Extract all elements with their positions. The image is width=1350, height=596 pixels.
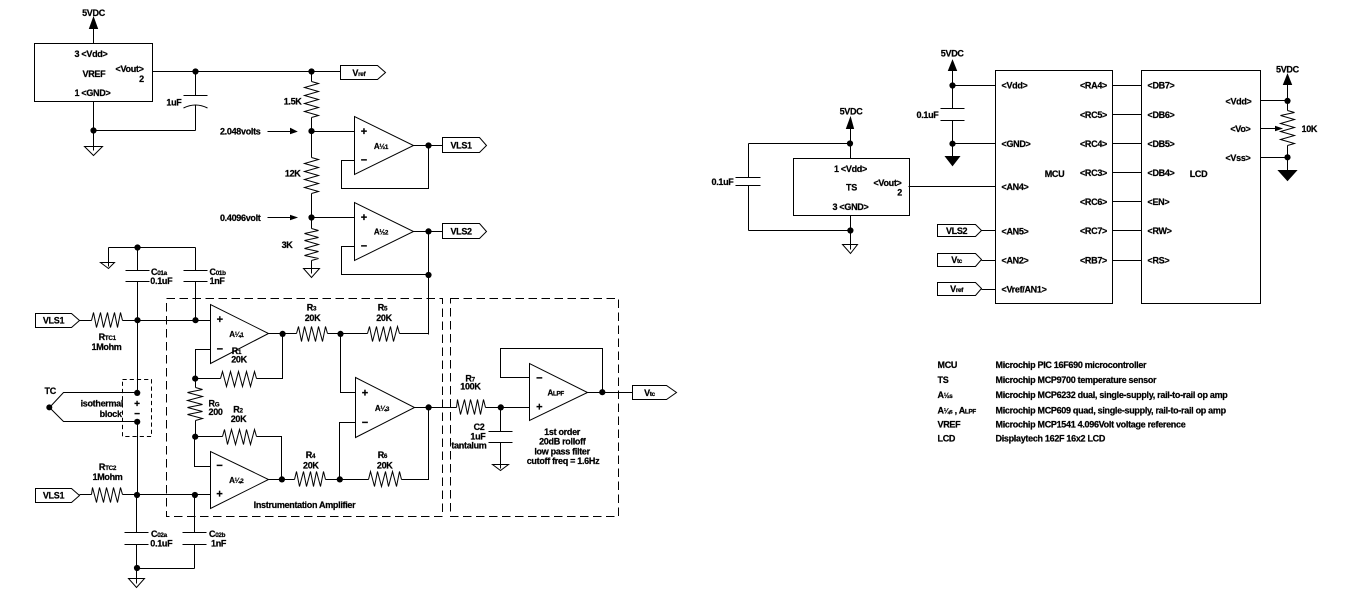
svg-text:−: − <box>361 241 367 253</box>
wire A1/4-2 output <box>269 479 295 481</box>
wire MCU RC6 to LCD EN <box>1113 201 1142 203</box>
wire 5VDC to pot top <box>1287 85 1289 111</box>
wire C01 ground bus <box>109 247 196 249</box>
svg-text:VLS1: VLS1 <box>43 316 65 326</box>
svg-text:Microchip PIC 16F690 microcont: Microchip PIC 16F690 microcontroller <box>996 360 1148 370</box>
svg-text:+: + <box>217 314 223 326</box>
svg-text:+: + <box>361 212 367 224</box>
node junction R1/RG <box>192 376 198 382</box>
svg-text:2: 2 <box>139 74 144 84</box>
thermocouple TC terminal <box>45 386 57 410</box>
wire Vtc to MCU AN2 <box>982 260 996 262</box>
svg-text:1Mohm: 1Mohm <box>91 342 121 352</box>
node junction R4/R6/-input <box>337 476 343 482</box>
svg-text:VREF: VREF <box>938 420 962 430</box>
op-amp A1/4-3 (MCP609 quarter) <box>356 378 415 438</box>
node junction Rtc1/C01a <box>134 317 140 323</box>
potentiometer 10K <box>1281 111 1318 158</box>
wire A1/4-3 + input stub <box>341 334 356 393</box>
svg-text:<AN5>: <AN5> <box>1002 226 1029 236</box>
svg-text:block: block <box>100 409 123 419</box>
capacitor C 0.1uF (TS bypass) <box>711 144 760 231</box>
wire TS Vout to MCU AN4 <box>909 186 996 188</box>
svg-text:<Vdd>: <Vdd> <box>1225 97 1251 107</box>
resistor 3K <box>282 218 319 269</box>
capacitor C1 1uF (VREF bypass) <box>166 72 207 131</box>
svg-text:<Vdd>: <Vdd> <box>1002 81 1028 91</box>
svg-text:2: 2 <box>897 188 902 198</box>
svg-text:<RC3>: <RC3> <box>1080 168 1107 178</box>
svg-text:20K: 20K <box>303 461 319 471</box>
capacitor C2 1uF tantalum <box>451 408 512 465</box>
svg-text:1 <Vdd>: 1 <Vdd> <box>834 164 867 174</box>
wire VLS2 node down to R5 <box>428 275 430 335</box>
wire A1/4-3 - input stub <box>340 423 356 480</box>
wire TC positive lead <box>50 393 138 408</box>
svg-text:A½1: A½1 <box>374 142 389 151</box>
op-amp A1/2-2 (MCP6232 half) <box>355 203 414 261</box>
resistor 12K <box>285 132 319 218</box>
low pass filter boundary (dashed box) <box>451 299 619 517</box>
svg-text:VREF: VREF <box>83 69 107 79</box>
instrumentation amplifier boundary (dashed box) <box>167 299 443 517</box>
svg-text:1 <GND>: 1 <GND> <box>75 88 111 98</box>
resistor R3 20K <box>297 303 328 342</box>
svg-text:0.1uF: 0.1uF <box>711 177 734 187</box>
svg-text:A¼1: A¼1 <box>229 330 244 339</box>
wire MCU RC4 to LCD DB5 <box>1113 143 1142 145</box>
svg-text:−: − <box>216 460 222 472</box>
svg-text:<RC5>: <RC5> <box>1080 110 1107 120</box>
ground (TS) <box>850 245 852 250</box>
svg-text:1.5K: 1.5K <box>284 97 303 107</box>
power 5VDC (VREF supply) <box>82 8 106 29</box>
svg-text:Instrumentation Amplifier: Instrumentation Amplifier <box>254 500 356 510</box>
svg-text:−: − <box>362 417 368 429</box>
wire A1/4-2 - input stub <box>195 437 211 467</box>
node junction Vout/C1 <box>192 68 198 74</box>
svg-text:+: + <box>536 401 542 413</box>
svg-text:0.1uF: 0.1uF <box>150 539 173 549</box>
voltage reference U VREF (MCP1541) <box>35 44 153 102</box>
wire Vdd to MCU <box>953 85 996 87</box>
wire TS GND down <box>850 216 852 245</box>
input flag Vtc (to AN2) <box>938 254 982 267</box>
svg-text:+: + <box>362 387 368 399</box>
node junction LCD Vdd <box>1284 98 1290 104</box>
node junction Vout/divider <box>308 68 314 74</box>
svg-text:Microchip MCP1541 4.096Volt vo: Microchip MCP1541 4.096Volt voltage refe… <box>996 420 1186 430</box>
wire R2 to A1/4-2 output <box>257 437 282 480</box>
resistor R6 20K <box>340 450 402 487</box>
svg-text:−: − <box>134 409 140 420</box>
node junction TS Vdd/cap <box>847 140 853 146</box>
svg-text:0.4096volt: 0.4096volt <box>220 213 261 223</box>
svg-text:1nF: 1nF <box>210 276 226 286</box>
wire flag to Rtc2 <box>80 494 92 496</box>
wire A1/4-1 - input stub <box>196 350 211 379</box>
node feedback/R5 junction <box>425 272 431 278</box>
svg-text:1uF: 1uF <box>166 98 182 108</box>
op-amp A1/4-1 (MCP609 quarter) <box>211 305 269 364</box>
svg-text:200: 200 <box>209 407 223 417</box>
svg-text:MCU: MCU <box>938 360 958 370</box>
ground (VREF) <box>85 131 103 156</box>
svg-text:−: − <box>217 343 223 355</box>
resistor R2 20K <box>196 405 257 445</box>
resistor R7 100K <box>457 374 486 415</box>
wire R4 to junction <box>326 479 340 481</box>
input flag VLS1 (to Rtc1) <box>36 314 80 328</box>
ground (divider) <box>311 269 313 274</box>
wire R5 to VLS2 node <box>400 333 429 335</box>
node junction C02 ground <box>134 565 140 571</box>
ground (MCU, solid) <box>946 144 960 166</box>
legend component table <box>938 360 1229 444</box>
wire TC column lower <box>137 422 139 495</box>
wire MCU RB7 to LCD RS <box>1113 260 1142 262</box>
svg-text:TS: TS <box>846 182 857 192</box>
svg-text:VLS1: VLS1 <box>450 140 472 150</box>
node junction R7/C2 <box>498 404 504 410</box>
power 5VDC (TS supply) <box>840 107 864 129</box>
svg-text:<RB7>: <RB7> <box>1080 255 1107 265</box>
node junction C02b <box>192 492 198 498</box>
node junction C01a top <box>134 244 140 250</box>
svg-text:20K: 20K <box>376 313 392 323</box>
svg-text:tantalum: tantalum <box>451 441 486 451</box>
svg-text:<RC6>: <RC6> <box>1080 197 1107 207</box>
svg-text:1nF: 1nF <box>211 539 227 549</box>
svg-text:TC: TC <box>45 386 57 396</box>
svg-text:<Vout>: <Vout> <box>116 64 144 74</box>
wire ALPF output <box>588 392 633 394</box>
wire R6 to A1/4-3 output node <box>402 408 429 480</box>
node junction Rtc2/C02a <box>134 492 140 498</box>
svg-text:20dB rolloff: 20dB rolloff <box>539 437 587 447</box>
svg-text:−: − <box>361 155 367 167</box>
wire LCD Vdd to pot <box>1261 100 1288 102</box>
microcontroller MCU (PIC16F690) <box>996 71 1113 304</box>
svg-text:<RS>: <RS> <box>1148 255 1170 265</box>
svg-text:1Mohm: 1Mohm <box>92 472 122 482</box>
svg-text:+: + <box>361 126 367 138</box>
svg-text:−: − <box>536 373 542 385</box>
svg-text:A¼3: A¼3 <box>375 404 390 413</box>
svg-text:LCD: LCD <box>1190 169 1208 179</box>
input flag VLS2 (to AN5) <box>938 225 982 237</box>
ground (LCD, solid) <box>1279 158 1297 181</box>
wire pot wiper to LCD Vo <box>1261 127 1282 131</box>
svg-text:<Vo>: <Vo> <box>1230 124 1250 134</box>
svg-text:LCD: LCD <box>938 433 956 443</box>
wire flag to Rtc1 <box>80 320 92 322</box>
wire VREF Vout to Vref flag (node Vref) <box>153 71 341 73</box>
node tap 0.4096volt <box>220 213 315 223</box>
wire A1/2-1 feedback <box>342 146 429 189</box>
wire A1/2-1 output <box>414 145 443 147</box>
svg-text:<Vref/AN1>: <Vref/AN1> <box>1002 284 1047 294</box>
resistor R1 20K <box>196 346 257 387</box>
svg-text:5VDC: 5VDC <box>1276 64 1300 74</box>
resistor R4 20K <box>295 450 326 487</box>
node junction R3/R5/+input <box>337 331 343 337</box>
op-amp A1/4-2 (MCP609 quarter) <box>211 452 269 509</box>
svg-text:<Vout>: <Vout> <box>873 178 901 188</box>
wire A1/2-2 output <box>414 231 443 233</box>
svg-text:<DB5>: <DB5> <box>1148 139 1175 149</box>
svg-text:VLS2: VLS2 <box>946 226 968 236</box>
svg-text:12K: 12K <box>285 169 301 179</box>
svg-text:VLS1: VLS1 <box>43 491 65 501</box>
resistor RG 200 <box>188 379 203 437</box>
svg-text:5VDC: 5VDC <box>840 107 864 117</box>
svg-text:0.1uF: 0.1uF <box>916 110 939 120</box>
capacitor C02a 0.1uF <box>125 495 174 569</box>
wire R1 to A1/4-1 output <box>257 334 283 379</box>
node A1/4-3 output <box>426 404 432 410</box>
wire LCD Vss to pot bottom <box>1261 157 1288 159</box>
svg-text:A½2: A½2 <box>374 228 389 237</box>
node A1/4-1 output <box>280 331 286 337</box>
svg-text:<EN>: <EN> <box>1148 197 1170 207</box>
wire junction to ALPF + input <box>501 407 530 409</box>
svg-text:3K: 3K <box>282 240 294 250</box>
input flag VLS1 (to Rtc2) <box>36 489 80 503</box>
svg-text:20K: 20K <box>377 461 393 471</box>
resistor 1.5K <box>284 82 319 118</box>
wire Rtc2 to A1/4-2 + input <box>123 494 211 496</box>
svg-text:TS: TS <box>938 375 949 385</box>
svg-text:<RA4>: <RA4> <box>1080 81 1107 91</box>
node junction RG/R2 <box>192 434 198 440</box>
label isothermal block <box>81 399 124 419</box>
svg-text:<DB6>: <DB6> <box>1148 110 1175 120</box>
op-amp ALPF (MCP609 quarter) <box>530 364 588 421</box>
svg-text:3 <Vdd>: 3 <Vdd> <box>75 49 108 59</box>
svg-text:<Vss>: <Vss> <box>1225 153 1250 163</box>
wire MCU RA4 to LCD DB7 <box>1113 85 1142 87</box>
wire C1 bottom to VREF GND <box>94 130 196 132</box>
svg-text:20K: 20K <box>231 414 247 424</box>
wire TC column upper <box>137 321 139 393</box>
wire A1/4-1 output <box>269 333 297 335</box>
svg-text:Displaytech 162F 16x2 LCD: Displaytech 162F 16x2 LCD <box>996 433 1106 443</box>
node junction MCU Vdd/cap <box>949 82 955 88</box>
svg-text:<RW>: <RW> <box>1148 226 1172 236</box>
label low pass filter description <box>527 427 600 466</box>
svg-text:Microchip MCP9700 temperature: Microchip MCP9700 temperature sensor <box>996 375 1158 385</box>
isothermal block (dashed) <box>123 380 152 437</box>
node ALPF output <box>599 389 605 395</box>
capacitor C 0.1uF (MCU bypass) <box>916 86 964 144</box>
resistor R5 20K <box>341 303 400 342</box>
ground (C2) <box>500 465 502 469</box>
svg-text:ALPF: ALPF <box>547 388 564 397</box>
output flag VLS1 <box>443 138 487 153</box>
wire tap to A1/2-1 + input <box>312 131 355 133</box>
wire 5VDC to TS Vdd <box>850 127 852 159</box>
capacitor C02b 1nF <box>183 495 227 569</box>
wire A1/2-2 feedback <box>342 232 429 275</box>
svg-text:2.048volts: 2.048volts <box>220 127 261 137</box>
wire A1/4-3 output to R7 <box>415 407 457 409</box>
svg-text:A¼2: A¼2 <box>229 476 244 485</box>
node A1/2-2 output (VLS2) <box>425 228 431 234</box>
power 5VDC (LCD contrast) <box>1276 64 1300 84</box>
node A1/4-2 output <box>279 476 285 482</box>
node TC+ junction <box>134 390 140 396</box>
svg-text:VLS2: VLS2 <box>450 226 472 236</box>
resistor Rtc2 1Mohm <box>92 462 123 502</box>
wire ALPF feedback <box>501 349 603 393</box>
node junction MCU GND/cap <box>949 141 955 147</box>
svg-text:<RC4>: <RC4> <box>1080 139 1107 149</box>
svg-text:isothermal: isothermal <box>81 399 124 409</box>
svg-text:+: + <box>216 489 222 501</box>
wire C02 ground bus <box>137 568 195 570</box>
ground (C01 pair) <box>101 248 115 269</box>
wire VREF GND down <box>93 102 95 131</box>
wire MCU RC3 to LCD DB4 <box>1113 172 1142 174</box>
svg-text:10K: 10K <box>1302 124 1318 134</box>
svg-text:5VDC: 5VDC <box>941 49 965 59</box>
node junction C01b/+input <box>192 317 198 323</box>
node A1/2-1 output (VLS1) <box>425 142 431 148</box>
svg-text:<DB7>: <DB7> <box>1148 81 1175 91</box>
wire MCU RC5 to LCD DB6 <box>1113 114 1142 116</box>
node junction TS GND/cap <box>847 227 853 233</box>
power 5VDC (MCU supply) <box>941 49 965 71</box>
wire MCU RC7 to LCD RW <box>1113 230 1142 232</box>
resistor Rtc1 1Mohm <box>91 313 122 352</box>
svg-text:<RC7>: <RC7> <box>1080 226 1107 236</box>
label RG 200 <box>209 399 223 417</box>
output flag Vtc <box>633 386 677 400</box>
display LCD (Displaytech 162F) <box>1142 71 1261 304</box>
svg-text:Microchip MCP6232 dual, single: Microchip MCP6232 dual, single-supply, r… <box>996 390 1229 400</box>
svg-text:100K: 100K <box>460 381 481 391</box>
wire divider top <box>311 72 313 82</box>
node tap 2.048volts <box>220 127 315 137</box>
ground (C02 pair) <box>136 579 138 584</box>
wire R7 to junction <box>486 407 501 409</box>
svg-text:20K: 20K <box>305 313 321 323</box>
temperature sensor TS (MCP9700) <box>794 159 910 216</box>
wire Rtc1 to A1/4-1 + input <box>123 320 211 322</box>
svg-text:cutoff freq = 1.6Hz: cutoff freq = 1.6Hz <box>527 456 600 466</box>
wire Vref to MCU Vref/AN1 <box>982 289 996 291</box>
svg-text:MCU: MCU <box>1045 169 1065 179</box>
wire R3 to junction <box>328 333 341 335</box>
node junction LCD Vss <box>1284 154 1290 160</box>
svg-text:<AN4>: <AN4> <box>1002 182 1029 192</box>
svg-text:low pass filter: low pass filter <box>534 447 590 457</box>
wire TC negative lead <box>50 408 138 422</box>
wire TS cap top <box>749 143 851 145</box>
node TC- junction <box>134 419 140 425</box>
svg-text:Microchip MCP609 quad, single-: Microchip MCP609 quad, single-supply, ra… <box>996 406 1227 416</box>
wire 1.5K to tap <box>311 118 313 132</box>
wire TS cap bottom <box>749 230 851 232</box>
svg-text:<DB4>: <DB4> <box>1148 168 1175 178</box>
wire 5VDC to MCU Vdd <box>952 71 954 86</box>
svg-text:3 <GND>: 3 <GND> <box>833 202 869 212</box>
wire VLS2 to MCU AN5 <box>982 230 996 232</box>
op-amp A1/2-1 (MCP6232 half) <box>355 117 414 175</box>
node junction GND <box>90 127 96 133</box>
input flag Vref (to Vref/AN1) <box>938 283 982 296</box>
svg-text:20K: 20K <box>231 354 247 364</box>
wire tap to A1/2-2 + input <box>312 217 355 219</box>
wire GND to MCU <box>953 143 996 145</box>
output flag Vref <box>341 66 386 80</box>
svg-text:<AN2>: <AN2> <box>1002 255 1029 265</box>
svg-text:5VDC: 5VDC <box>82 8 106 18</box>
capacitor C01b 1nF <box>184 248 227 321</box>
output flag VLS2 <box>443 224 487 239</box>
wire 5VDC to VREF Vdd <box>93 29 95 44</box>
svg-text:0.1uF: 0.1uF <box>150 276 173 286</box>
svg-text:<GND>: <GND> <box>1002 139 1031 149</box>
capacitor C01a 0.1uF <box>126 248 174 321</box>
